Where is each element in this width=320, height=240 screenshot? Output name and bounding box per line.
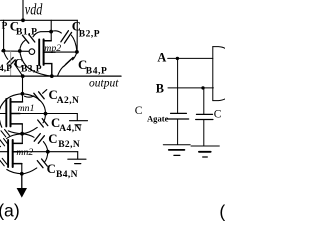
junction gate-B left (2, 49, 6, 53)
capacitor C_A4,N plates (38, 120, 44, 127)
wire mn1 loop SW arc lower (0, 114, 2, 128)
capacitor C_Bgate lead (203, 88, 205, 114)
capacitor C_Agate bottom plate (167, 118, 189, 120)
wire vdd lead (22, 0, 24, 20)
junction mn1 loop bottom (20, 132, 24, 136)
svg-text:A2,N: A2,N (57, 96, 79, 106)
svg-text:B2,N: B2,N (58, 140, 80, 150)
svg-text:C: C (47, 162, 56, 176)
transistor mp2 bubble (29, 49, 35, 55)
svg-text:B4,N: B4,N (56, 170, 78, 180)
capacitor C_B3,P vertical thin wire (10, 51, 12, 76)
transistor mp2 drain stub (44, 40, 52, 42)
transistor mp2 channel bar (43, 39, 45, 65)
capacitor C_B2,N wire upper (22, 134, 34, 138)
svg-text:Agate: Agate (147, 113, 169, 123)
transistor mn2 drain stub (13, 142, 23, 144)
capacitor C_B3,P wire lower (14, 64, 22, 76)
capacitor C_Bgate bottom plate (196, 119, 213, 121)
capacitor C_B2,P wire right (71, 35, 77, 51)
junction mp2 source / right leg (75, 50, 79, 54)
wire output to mn1 drain (22, 76, 24, 102)
wire mn2 loop NW arc lower (0, 146, 1, 154)
wire C_Bgate to ground (203, 120, 205, 146)
capacitor C_Agate top plate (171, 112, 187, 114)
capacitor C_B4,N wire upper (45, 152, 48, 162)
junction A / C_Agate (176, 57, 179, 60)
wire mn2 loop SW arc (7, 170, 22, 174)
junction gate-B / mp1 loop (18, 49, 22, 53)
capacitor C_B1,P wire lower (20, 40, 25, 51)
wire mn1 loop NW arc (0, 94, 22, 114)
junction B / C_Bgate (201, 86, 204, 89)
ground for C_A4,N (70, 120, 88, 122)
svg-text:mn2: mn2 (16, 147, 33, 158)
transistor mn1 gate wire (0, 113, 6, 115)
wire mp2 drain lead (50, 20, 52, 40)
svg-text:mn1: mn1 (18, 103, 35, 114)
junction mn1 loop top (21, 92, 25, 96)
svg-text:C: C (135, 105, 143, 117)
wire mn2 source to arrow (21, 174, 23, 189)
svg-text:P: P (2, 22, 8, 32)
transistor mn1 channel bar (10, 99, 12, 127)
capacitor C_B1,P plates (22, 35, 28, 43)
capacitor C_B4,N wire lower (22, 168, 37, 174)
svg-text:A: A (157, 50, 166, 64)
capacitor C_B2,P wire left (51, 31, 61, 33)
capacitor C_B1,P wire upper (33, 32, 51, 37)
capacitor C_B4,N plates (37, 161, 43, 168)
capacitor C_B4,P plates (66, 57, 73, 64)
capacitor C_A2,N wire lower (25, 96, 34, 97)
transistor mn2 gate wire (0, 151, 8, 153)
capacitor C_A4,N wire upper (43, 114, 46, 123)
capacitor C_A2,N wire upper (43, 90, 47, 94)
svg-text:C: C (48, 132, 57, 146)
wire left leg (mp1 branch) (3, 20, 5, 51)
wire C_Agate to ground (177, 119, 179, 145)
arrow current direction (17, 188, 27, 198)
ground for C_B2,N (77, 152, 79, 159)
junction mn2 loop right (46, 150, 50, 154)
capacitor B3,N partial plates (0, 160, 4, 166)
svg-text:(a): (a) (0, 201, 20, 221)
capacitor B1,N partial plates (0, 140, 5, 146)
svg-text:A4,N: A4,N (59, 124, 81, 134)
junction mp2 drain / C_B1,P / C_B2,P (49, 30, 53, 34)
wire mp2 loop SW arc (20, 51, 52, 76)
gate U1 bottom edge (213, 99, 226, 101)
wire mn1 loop NE arc (22, 94, 45, 114)
junction vdd-rail (21, 18, 25, 22)
capacitor C_B3,P wire upper (mp1 loop) (4, 51, 8, 59)
transistor mn2 channel bar (12, 140, 14, 167)
svg-text:B4,P: B4,P (86, 66, 108, 76)
wire mn1 loop SW arc (8, 131, 22, 134)
transistor mn1 gate plate (5, 99, 7, 127)
wire top vdd rail (1, 19, 78, 21)
svg-text:C: C (214, 109, 222, 121)
ground for C_Bgate (191, 145, 219, 147)
wire input B (168, 87, 213, 89)
svg-text:output: output (89, 77, 119, 89)
capacitor C_B2,N plates (34, 134, 40, 142)
junction output / mp2 drain (50, 74, 54, 78)
transistor mn2 bottom stub (13, 163, 22, 165)
capacitor C_B2,P plates (61, 31, 69, 42)
wire input A (168, 57, 213, 59)
wire gate-B horizontal (2, 50, 29, 52)
ground for C_Agate (163, 144, 190, 146)
capacitor C_A4,N wire lower (22, 127, 37, 133)
capacitor A3,N partial plates (1, 131, 6, 137)
svg-text:B: B (156, 82, 164, 96)
capacitor C_Bgate top plate (197, 113, 213, 115)
capacitor C_A2,N plates (34, 93, 40, 100)
svg-text:B1,P: B1,P (16, 27, 37, 37)
svg-text:(b): (b) (219, 202, 225, 222)
wire mn2 loop NW arc (7, 134, 23, 139)
gate U1 left edge (212, 47, 214, 101)
transistor mp2 source stub to right leg (44, 51, 55, 53)
transistor mn1 drain stub (11, 101, 23, 103)
wire output line (0, 75, 121, 77)
transistor mn1 source/bulk stub (11, 113, 21, 115)
transistor mn1 bottom stub (11, 123, 23, 125)
junction output / mn1 drain (21, 74, 25, 78)
svg-text:mp2: mp2 (44, 43, 61, 54)
capacitor C_B4,P wire lower (58, 67, 64, 76)
svg-text:B2,P: B2,P (79, 29, 100, 39)
junction mn1 loop right (44, 112, 48, 116)
transistor mn2 source/bulk stub (13, 151, 21, 153)
svg-text:vdd: vdd (25, 1, 43, 18)
capacitor C_Agate lead (177, 58, 179, 113)
wire right leg (mp2 source) (76, 20, 78, 51)
capacitor C_B4,P wire upper (73, 52, 77, 60)
capacitor C_B3,P plates (7, 58, 13, 64)
gate U1 top edge (213, 47, 226, 49)
junction mn2 loop bottom (20, 172, 24, 176)
transistor mn2 gate plate (7, 140, 9, 167)
transistor mp2 bottom stub (44, 64, 52, 77)
transistor mp2 gate plate (38, 39, 40, 65)
svg-text:4,P: 4,P (0, 64, 12, 74)
capacitor C_B2,N wire lower (43, 142, 47, 152)
